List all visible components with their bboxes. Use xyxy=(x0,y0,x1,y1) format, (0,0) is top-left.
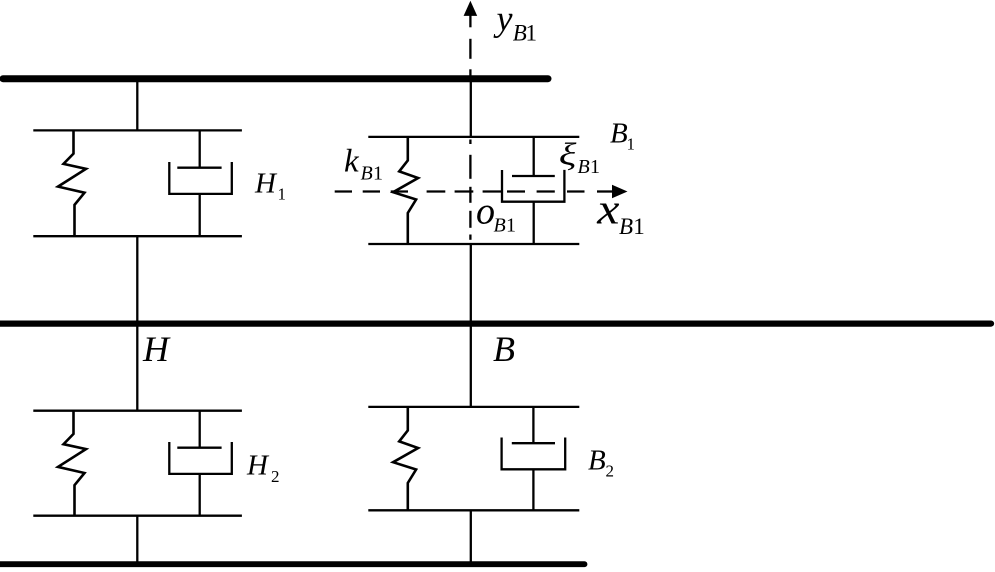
svg-text:x: x xyxy=(596,185,619,233)
svg-text:y: y xyxy=(494,0,513,39)
svg-text:1: 1 xyxy=(373,162,383,184)
svg-text:1: 1 xyxy=(633,214,645,239)
svg-text:H: H xyxy=(142,329,171,369)
svg-text:H: H xyxy=(246,450,270,482)
svg-text:B: B xyxy=(493,329,515,369)
svg-text:B: B xyxy=(588,445,606,477)
svg-text:1: 1 xyxy=(590,156,600,178)
svg-text:B: B xyxy=(361,162,373,184)
svg-text:B: B xyxy=(494,214,506,236)
svg-text:1: 1 xyxy=(278,184,287,203)
svg-text:ξ: ξ xyxy=(559,137,577,172)
svg-text:H: H xyxy=(254,168,278,200)
svg-text:B: B xyxy=(578,156,590,178)
svg-text:B: B xyxy=(619,214,633,239)
svg-text:1: 1 xyxy=(627,135,636,154)
svg-text:2: 2 xyxy=(271,467,280,486)
svg-text:2: 2 xyxy=(606,462,615,481)
svg-text:1: 1 xyxy=(526,21,538,46)
svg-text:k: k xyxy=(344,144,360,180)
svg-text:1: 1 xyxy=(506,214,516,236)
svg-text:B: B xyxy=(610,118,628,150)
svg-text:o: o xyxy=(476,191,495,233)
